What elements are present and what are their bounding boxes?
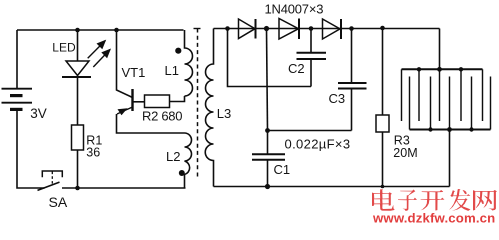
grid top comb fingers — [402, 69, 483, 121]
wire node A drop — [228, 29, 312, 87]
LED diode — [62, 61, 91, 77]
battery GB 3V — [2, 89, 33, 110]
svg-text:C3: C3 — [329, 91, 346, 106]
capacitor C1 — [252, 131, 285, 187]
wire battery left rail upper — [16, 30, 18, 89]
wire grid feed top — [439, 29, 441, 70]
wire secondary bottom rail — [214, 186, 450, 188]
diode D2 — [279, 19, 299, 40]
polarity dot L2 — [179, 170, 185, 176]
diode D3 — [323, 19, 342, 39]
diode D1 — [239, 19, 256, 39]
node dot A — [225, 26, 230, 31]
wire node B drop to C1 — [267, 29, 268, 131]
grid bottom bar node dots — [428, 127, 432, 131]
inductor L1 — [185, 30, 193, 96]
resistor R2 — [145, 95, 170, 108]
capacitor C3 — [338, 29, 367, 131]
svg-text:3V: 3V — [30, 106, 47, 121]
switch SA — [38, 171, 63, 190]
wire R2 to L1 bottom — [170, 96, 185, 102]
resistor R3 — [376, 28, 389, 187]
svg-text:1N4007×3: 1N4007×3 — [265, 1, 324, 16]
electrode grid top bar — [402, 68, 483, 70]
node dot C1 top — [265, 128, 270, 133]
wire mid rail C1 to C3 — [268, 130, 352, 132]
LED emission arrow 2 — [93, 49, 111, 68]
electrode grid bottom bar — [410, 129, 491, 131]
resistor R1 — [72, 125, 84, 150]
svg-text:www.dzkfw.com.cn: www.dzkfw.com.cn — [372, 211, 495, 224]
wire R1 to bottom rail — [77, 150, 79, 188]
svg-text:C2: C2 — [288, 61, 305, 76]
node dot D — [349, 26, 354, 31]
svg-text:36: 36 — [86, 146, 100, 160]
polarity dot L1 — [175, 48, 181, 54]
LED emission arrow 1 — [88, 40, 107, 59]
svg-text:L1: L1 — [165, 63, 179, 78]
node dot C — [309, 26, 314, 31]
inductor L2 — [185, 133, 192, 188]
wire VT1 emitter to L2 top — [117, 114, 185, 133]
svg-text:L2: L2 — [166, 149, 180, 164]
grid bottom comb fingers — [410, 77, 491, 130]
svg-text:0.022µF×3: 0.022µF×3 — [285, 137, 351, 152]
wire grid feed bottom — [449, 130, 451, 187]
node dot R3 bottom — [381, 185, 385, 189]
grid top bar node dots — [417, 67, 421, 71]
node dot LED branch bottom — [75, 186, 80, 191]
wire battery left rail lower — [17, 109, 45, 188]
node dot C1 bottom — [265, 184, 270, 189]
wire bottom left rail — [62, 187, 186, 189]
wire secondary top rail — [214, 28, 440, 30]
node dot E R3 tap — [380, 26, 385, 31]
transistor VT1 — [117, 30, 133, 115]
svg-text:L3: L3 — [217, 106, 231, 121]
transformer core — [194, 29, 201, 178]
svg-text:VT1: VT1 — [122, 65, 146, 80]
watermark big text — [372, 189, 497, 211]
node dot LED branch top — [75, 28, 80, 33]
node dot B — [264, 26, 269, 31]
wire LED anode lead — [77, 30, 79, 61]
svg-text:R2 680: R2 680 — [142, 108, 182, 123]
wire VT1 base to R2 — [133, 101, 145, 103]
svg-text:C1: C1 — [274, 162, 291, 177]
svg-text:20M: 20M — [393, 146, 417, 160]
wire LED cathode to R1 — [77, 77, 79, 125]
node dot VT1 collector top — [114, 28, 119, 33]
capacitor C2 — [297, 29, 327, 87]
inductor L3 — [205, 29, 213, 187]
wire top left rail — [17, 29, 184, 31]
svg-text:LED: LED — [52, 41, 76, 55]
svg-text:SA: SA — [49, 194, 68, 210]
